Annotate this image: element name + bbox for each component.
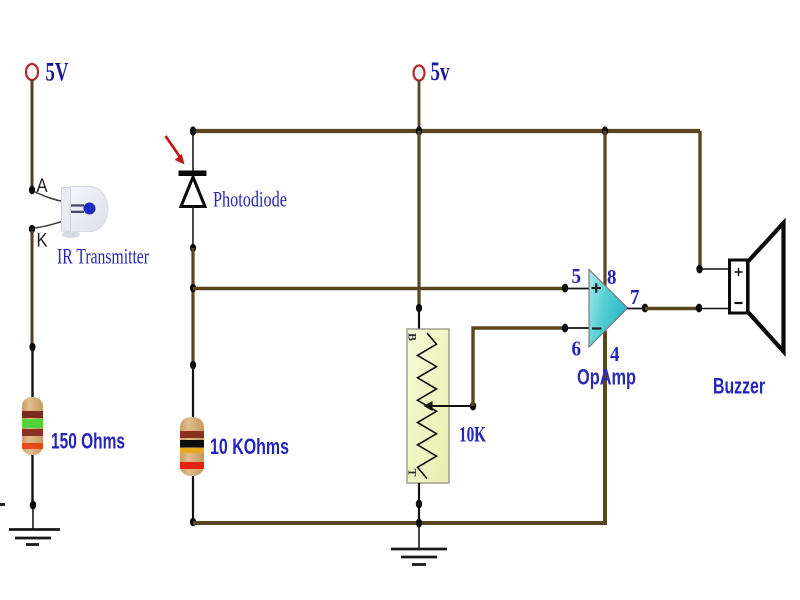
light arrow [166, 136, 185, 165]
node buzzer plus [696, 265, 702, 274]
ground (center) [391, 525, 447, 565]
node plus input [562, 284, 568, 293]
power terminal 5v (center) [414, 66, 425, 81]
wire wiper to inverting input [473, 328, 565, 406]
wire node A to LED anode lead [34, 192, 64, 202]
junction R2 bottom [190, 518, 196, 527]
right rail wire down to buzzer plus [698, 131, 701, 269]
wire top rail to photodiode [192, 131, 194, 172]
wire node to opamp minus [565, 327, 590, 329]
wire pot bottom [418, 483, 420, 523]
wire R1 to ground junction [31, 455, 33, 505]
wire photodiode to junction [192, 206, 194, 248]
op-amp U1 [589, 270, 628, 348]
photodiode D1 [179, 171, 207, 207]
wire 5v rail down to pot [417, 131, 420, 308]
svg-text:T: T [406, 469, 420, 477]
svg-text:Photodiode: Photodiode [213, 187, 287, 212]
svg-text:10K: 10K [459, 422, 486, 447]
junction above pot [416, 304, 422, 313]
pot wiper [424, 401, 474, 411]
svg-text:150 Ohms: 150 Ohms [51, 429, 125, 454]
junction below photodiode [190, 244, 196, 253]
wire to R1 [31, 349, 33, 398]
node wiper [470, 402, 476, 411]
wire junction down [191, 248, 194, 365]
svg-text:OpAmp: OpAmp [577, 365, 636, 390]
node A [29, 186, 35, 195]
wire to R2 [192, 365, 194, 418]
svg-text:B: B [406, 333, 420, 341]
IR transmitter LED body [62, 187, 109, 239]
junction bottom rail center [416, 519, 422, 528]
wire output to buzzer [645, 307, 699, 310]
svg-text:5v: 5v [431, 57, 450, 86]
node noninverting branch [190, 284, 196, 293]
wire junction to pot top [418, 308, 420, 330]
svg-text:7: 7 [630, 285, 640, 309]
top rail wire [193, 129, 700, 133]
wire 5v down to top rail [418, 80, 421, 131]
resistor R2 10 KOhms [180, 417, 204, 476]
node top rail left [190, 126, 196, 135]
junction above left ground [30, 501, 36, 510]
junction pot bottom [416, 500, 422, 509]
wire node to buzzer minus [699, 308, 730, 310]
ground (left) [9, 509, 60, 545]
buzzer LS1 [730, 223, 784, 352]
junction above R1 [29, 343, 35, 352]
svg-text:5V: 5V [46, 58, 69, 87]
wire node to opamp plus [565, 288, 590, 290]
wire node to buzzer plus [699, 268, 730, 270]
node top rail at opamp pin8 [602, 126, 608, 135]
svg-text:5: 5 [572, 264, 582, 288]
wire opamp output [627, 308, 645, 310]
node top rail at 5v [416, 126, 422, 135]
power terminal 5V [26, 64, 38, 80]
node buzzer minus [696, 304, 702, 313]
plus symbol [592, 283, 602, 293]
svg-text:4: 4 [610, 342, 620, 366]
stray mark [0, 503, 5, 506]
bottom rail wire [193, 331, 605, 523]
svg-text:6: 6 [572, 337, 582, 361]
svg-text:IR Transmitter: IR Transmitter [57, 244, 149, 269]
node K [29, 225, 35, 234]
wire 5V to node A [31, 80, 34, 190]
svg-text:K: K [37, 230, 48, 252]
resistor R1 150 Ohms [22, 397, 43, 455]
wire opamp power pin8/pin4 vertical [603, 131, 606, 523]
svg-text:10 KOhms: 10 KOhms [210, 434, 289, 459]
node output [642, 304, 648, 313]
svg-text:Buzzer: Buzzer [713, 374, 765, 399]
svg-text:8: 8 [607, 265, 617, 289]
wire node K down [31, 231, 34, 347]
wire node K to LED cathode lead [34, 221, 64, 228]
junction above R2 [190, 361, 196, 370]
minus symbol [592, 327, 602, 329]
wire R2 to bottom rail [192, 476, 194, 522]
potentiometer body [406, 329, 450, 483]
wire to opamp plus input [193, 287, 565, 291]
node minus input [562, 324, 568, 333]
